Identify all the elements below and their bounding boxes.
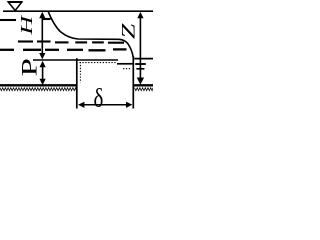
water dash row 1 bbox=[0, 19, 51, 20]
upstream bed line bbox=[0, 84, 76, 86]
tailwater dash 1 bbox=[135, 63, 146, 65]
weir crest line bbox=[33, 59, 118, 61]
crest step segment bbox=[117, 63, 133, 65]
block inner hatch: left dotted vertical bbox=[79, 62, 81, 83]
svg-text:H: H bbox=[17, 14, 35, 35]
weir block left edge bbox=[76, 58, 78, 108]
height P dimension arrow bbox=[40, 61, 46, 85]
block inner hatch: top dotted row bbox=[80, 62, 117, 64]
water dash row 3 bbox=[0, 48, 127, 51]
weir block right edge bbox=[132, 56, 134, 108]
svg-text:Z: Z bbox=[118, 23, 139, 39]
tailwater dash 2 bbox=[136, 68, 144, 70]
svg-text:δ: δ bbox=[94, 84, 104, 113]
water dash row 2 bbox=[18, 42, 124, 43]
tailwater surface line bbox=[134, 58, 153, 60]
drop Z dimension arrow bbox=[137, 12, 144, 85]
downstream bed line bbox=[134, 84, 153, 86]
upstream bed hatching bbox=[0, 88, 76, 91]
water level marker (nabla) bbox=[8, 2, 22, 11]
water surface drawdown curve bbox=[48, 12, 133, 57]
head H dimension arrow bbox=[39, 12, 45, 60]
svg-text:P: P bbox=[17, 58, 42, 76]
downstream bed hatching bbox=[135, 88, 154, 91]
crest width delta dimension arrow bbox=[78, 102, 132, 108]
block inner hatch: dotted row under step bbox=[123, 68, 132, 70]
upstream water surface reference line bbox=[3, 10, 153, 12]
